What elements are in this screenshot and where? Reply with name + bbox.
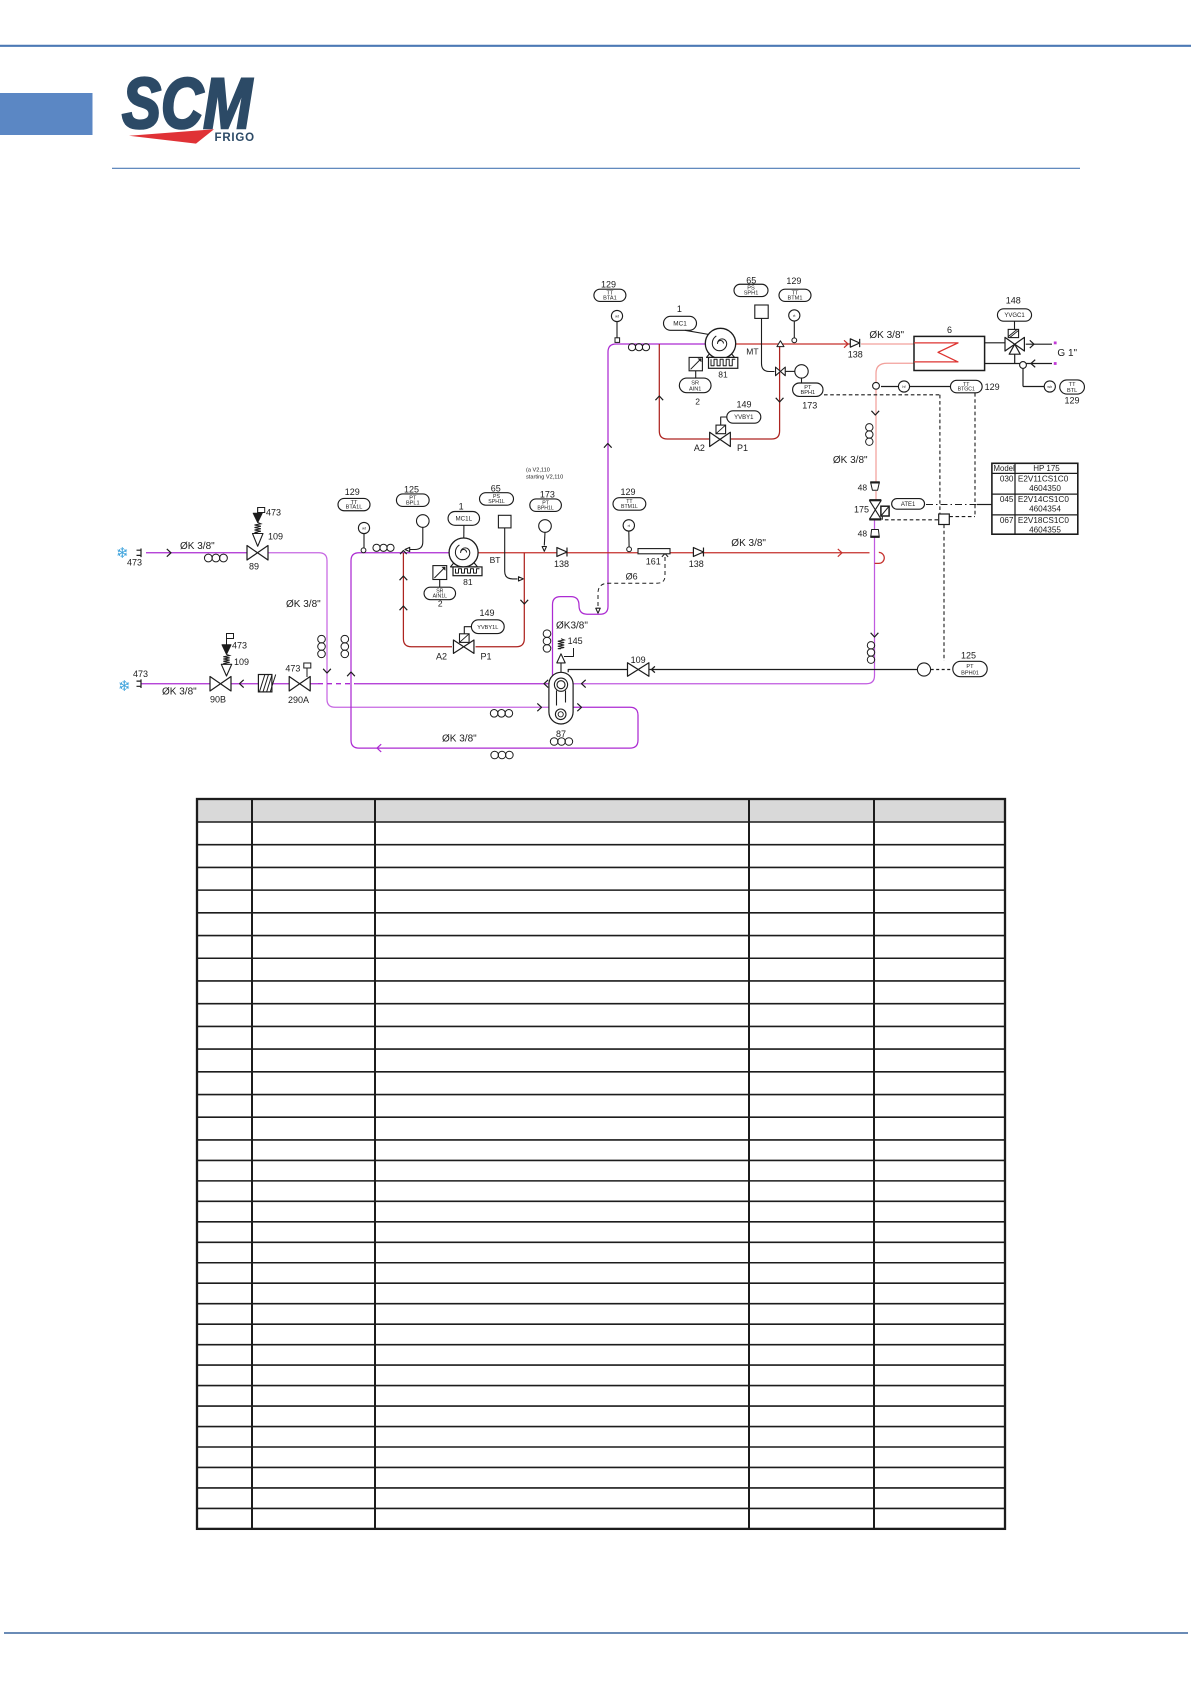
svg-text:BTGC1: BTGC1 [958,387,975,393]
svg-text:129: 129 [621,487,636,497]
svg-text:BPL1: BPL1 [406,500,420,506]
svg-text:BPH1L: BPH1L [537,505,554,511]
svg-text:BTA1L: BTA1L [346,505,363,511]
svg-text:BPH01: BPH01 [961,671,979,677]
svg-text:ØK 3/8": ØK 3/8" [162,687,197,698]
svg-text:109: 109 [234,657,249,667]
svg-text:148: 148 [1006,296,1021,306]
svg-text:BTM1L: BTM1L [621,504,638,510]
svg-text:173: 173 [540,490,555,500]
svg-text:173: 173 [802,401,817,411]
svg-text:129: 129 [345,487,360,497]
svg-text:ØK 3/8": ØK 3/8" [442,734,477,745]
svg-text:109: 109 [268,532,283,542]
svg-text:BT: BT [490,555,501,565]
svg-text:❄: ❄ [118,678,131,695]
svg-text:E2V14CS1C0: E2V14CS1C0 [1018,495,1069,504]
svg-text:starting V2,110: starting V2,110 [526,475,563,481]
svg-text:E2V18CS1C0: E2V18CS1C0 [1018,516,1069,525]
svg-text:129: 129 [985,382,1000,392]
svg-text:PT: PT [966,664,974,670]
svg-text:P1: P1 [737,443,748,453]
svg-text:ØK3/8": ØK3/8" [556,621,588,632]
svg-text:ØK 3/8": ØK 3/8" [731,538,766,549]
svg-text:175: 175 [854,505,869,515]
svg-text:MC1: MC1 [673,320,687,327]
svg-text:161: 161 [646,557,661,567]
svg-text:SPH1: SPH1 [744,290,759,296]
svg-text:290A: 290A [288,695,309,705]
svg-text:BTM1: BTM1 [788,295,803,301]
svg-text:473: 473 [232,641,247,651]
svg-text:YVBY1L: YVBY1L [477,625,498,631]
svg-text:473: 473 [133,669,148,679]
svg-text:2: 2 [438,599,443,609]
svg-text:A2: A2 [436,652,447,662]
svg-text:65: 65 [491,483,501,493]
svg-text:473: 473 [127,558,142,568]
svg-text:ØK 3/8": ØK 3/8" [833,455,868,466]
svg-text:(a V2,110: (a V2,110 [526,468,550,474]
svg-text:MT: MT [746,347,758,357]
svg-text:G 1": G 1" [1057,348,1077,359]
svg-text:4604355: 4604355 [1029,525,1061,534]
svg-text:Ø6: Ø6 [626,572,638,582]
svg-text:FRIGO: FRIGO [215,132,255,144]
svg-text:HP 175: HP 175 [1033,464,1060,473]
svg-text:4604350: 4604350 [1029,484,1061,493]
svg-text:145: 145 [568,636,583,646]
svg-text:138: 138 [848,350,863,360]
svg-text:129: 129 [1065,396,1080,406]
svg-text:48: 48 [858,529,868,539]
svg-text:109: 109 [631,655,646,665]
svg-text:81: 81 [463,577,473,587]
svg-text:4604354: 4604354 [1029,505,1061,514]
svg-text:045: 045 [1000,495,1014,504]
svg-text:90B: 90B [210,695,226,705]
svg-text:2: 2 [695,397,700,407]
svg-text:E2V11CS1C0: E2V11CS1C0 [1018,474,1069,483]
svg-text:149: 149 [737,400,752,410]
svg-text:MC1L: MC1L [456,516,473,523]
svg-text:1: 1 [459,502,464,512]
svg-text:YVBY1: YVBY1 [734,415,754,421]
svg-text:129: 129 [601,280,616,290]
svg-text:A2: A2 [694,443,705,453]
svg-text:89: 89 [249,562,259,572]
svg-text:AIN1: AIN1 [689,387,701,393]
svg-text:BTA1: BTA1 [603,295,617,301]
svg-text:138: 138 [554,559,569,569]
svg-text:Model: Model [994,464,1016,473]
svg-text:48: 48 [858,483,868,493]
svg-text:149: 149 [480,608,495,618]
svg-text:YVGC1: YVGC1 [1004,313,1025,319]
svg-text:ØK 3/8": ØK 3/8" [869,330,904,341]
svg-text:81: 81 [718,369,728,379]
svg-text:P1: P1 [481,652,492,662]
svg-text:wh: wh [1047,385,1052,389]
svg-text:BTL: BTL [1067,388,1077,394]
svg-text:1: 1 [677,304,682,314]
svg-text:ATE1: ATE1 [901,502,916,508]
svg-text:138: 138 [689,559,704,569]
svg-text:030: 030 [1000,474,1014,483]
svg-text:473: 473 [266,508,281,518]
svg-text:6: 6 [947,325,952,335]
svg-text:125: 125 [404,484,419,494]
svg-text:067: 067 [1000,516,1014,525]
svg-text:129: 129 [786,276,801,286]
svg-text:ØK 3/8": ØK 3/8" [286,599,321,610]
svg-text:BPH1: BPH1 [800,390,815,396]
svg-text:SPH1L: SPH1L [488,499,505,505]
svg-text:473: 473 [285,664,300,674]
svg-text:125: 125 [961,651,976,661]
svg-text:ØK 3/8": ØK 3/8" [180,541,215,552]
